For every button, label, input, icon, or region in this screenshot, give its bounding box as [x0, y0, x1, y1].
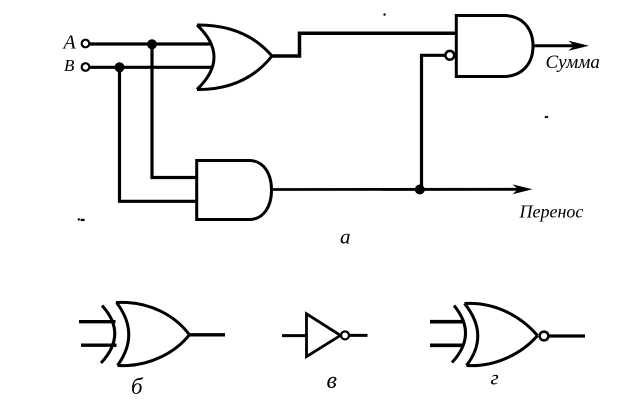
wire B input [90, 66, 214, 69]
scan speck right [545, 116, 549, 118]
XNOR gate g body [465, 303, 538, 365]
OR gate U1 [197, 25, 272, 90]
svg-text:B: B [64, 56, 75, 75]
terminal B [82, 63, 90, 71]
scan speck top [383, 13, 386, 16]
AND gate U3 body [197, 161, 272, 220]
NAND input bubble [445, 51, 454, 60]
XOR gate b extra input curve [101, 306, 115, 364]
svg-text:Сумма: Сумма [546, 52, 600, 73]
NAND gate U2 body [456, 16, 533, 77]
NOT gate v output wire [349, 334, 367, 337]
wire A branch down [152, 44, 198, 178]
junction carry dot [415, 185, 425, 195]
XOR gate b input wires [79, 320, 116, 323]
junction B dot [115, 62, 125, 72]
svg-text:а: а [340, 225, 351, 249]
svg-text:A: A [62, 32, 77, 54]
svg-text:Перенос: Перенос [519, 202, 584, 222]
wire OR output step [271, 33, 455, 56]
XNOR gate g extra input curve [452, 306, 466, 363]
wire B branch down [120, 67, 199, 201]
XOR gate b body [116, 302, 189, 365]
wire A input [90, 42, 212, 45]
XNOR gate g output wire [548, 334, 585, 337]
NOT gate v input wire [282, 334, 306, 337]
wire Sum output [533, 44, 580, 47]
NOT gate v bubble [341, 331, 349, 339]
arrowhead Sum [569, 41, 590, 51]
XNOR gate g input wires [430, 320, 463, 324]
junction A dot [147, 39, 157, 49]
terminal A [82, 40, 90, 48]
svg-text:в: в [327, 368, 337, 394]
wire feedback vertical [422, 55, 446, 189]
XOR gate b output wire [189, 333, 225, 336]
svg-text:г: г [491, 366, 499, 390]
svg-text:б: б [131, 374, 144, 399]
wire Carry [272, 188, 525, 191]
XNOR gate g bubble [540, 332, 549, 341]
arrowhead Carry [513, 184, 533, 194]
scan speck [78, 218, 80, 220]
NOT gate v triangle [307, 314, 341, 357]
